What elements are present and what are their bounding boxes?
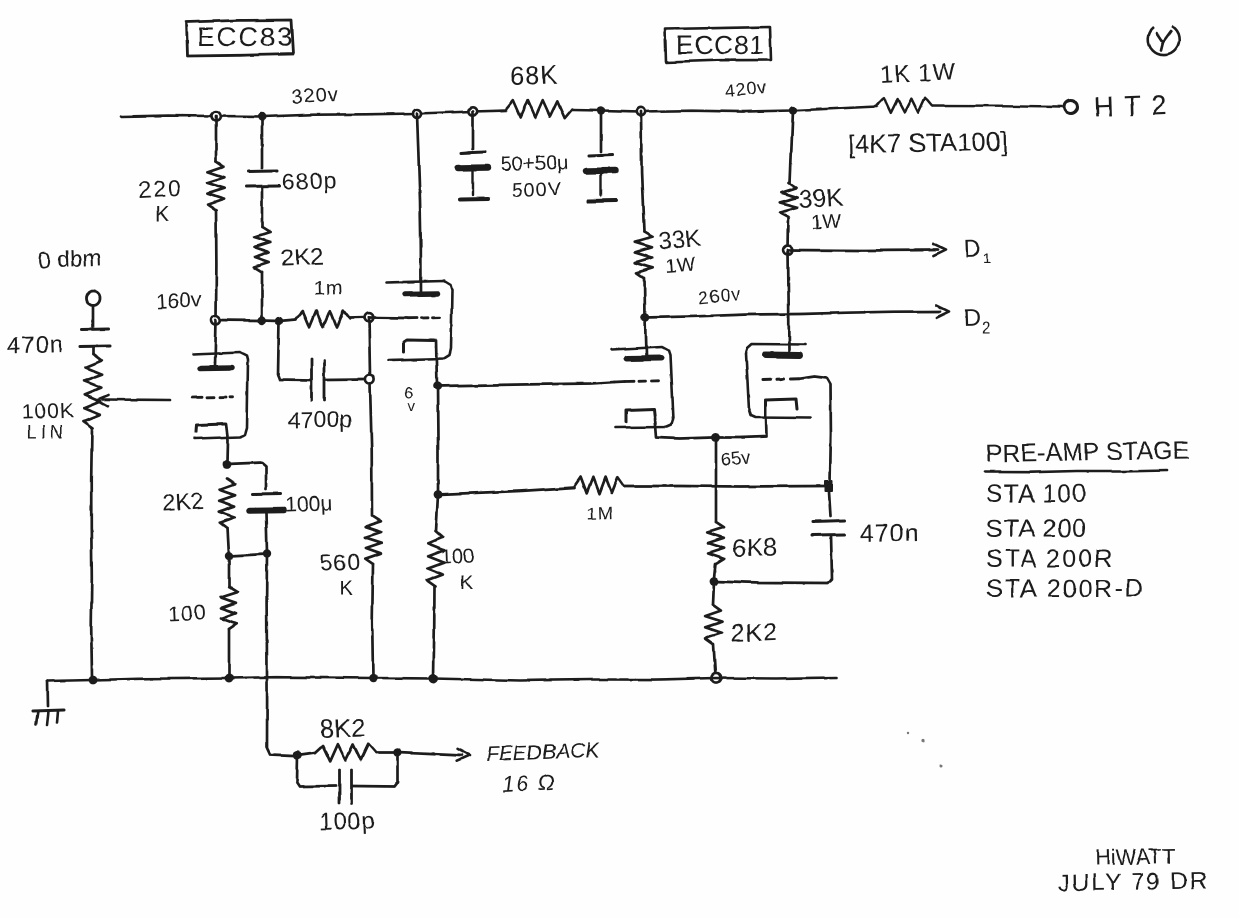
- svg-text:2K2: 2K2: [280, 244, 324, 272]
- svg-text:[4K7 STA100]: [4K7 STA100]: [848, 126, 1008, 159]
- junction ground at pot: [89, 676, 98, 685]
- resistor 560K: [365, 516, 382, 564]
- svg-text:ECC83: ECC83: [197, 22, 294, 52]
- wire 2K2 tail to ground: [714, 644, 716, 676]
- svg-text:100K: 100K: [21, 399, 75, 424]
- svg-text:1m: 1m: [313, 277, 344, 300]
- junction V2a cathode bottom: [434, 490, 443, 499]
- wire ground rail: [47, 677, 836, 681]
- wire V4 anode lead: [788, 250, 789, 352]
- label 65v: [720, 447, 751, 470]
- svg-text:160v: 160v: [155, 289, 202, 314]
- junction 4700p node: [365, 375, 374, 384]
- wire 2K2 to junction: [228, 528, 230, 556]
- wire D1 line: [788, 249, 938, 252]
- svg-text:320v: 320v: [291, 84, 340, 109]
- svg-text:2: 2: [982, 320, 991, 337]
- wire 470n down and to tail node: [714, 535, 832, 583]
- wire D2 line: [645, 312, 940, 318]
- svg-text:260v: 260v: [697, 284, 742, 308]
- label 6K8: [732, 533, 777, 563]
- svg-text:JULY 79 DR: JULY 79 DR: [1058, 867, 1210, 897]
- svg-text:65v: 65v: [720, 447, 751, 470]
- wire tail node to 2K2: [713, 581, 714, 605]
- terminal input: [86, 291, 100, 305]
- svg-text:68K: 68K: [509, 59, 559, 91]
- triode V1a grid dashes: [192, 395, 233, 399]
- svg-text:HT2: HT2: [1093, 89, 1177, 123]
- label 470n PI: [860, 519, 920, 548]
- resistor 68K on HT rail: [506, 101, 572, 119]
- wire 100 to ground: [228, 629, 231, 678]
- label box ECC81: [665, 27, 771, 62]
- svg-text:FEEDBACK: FEEDBACK: [485, 739, 600, 766]
- label STA 200R-D: [986, 575, 1144, 603]
- svg-text:33K: 33K: [658, 225, 702, 255]
- triode V3 grid dashes: [625, 379, 659, 383]
- svg-text:1W: 1W: [810, 210, 841, 234]
- label JULY 79 DR: [1058, 867, 1210, 897]
- wire 220K to 160v node: [215, 210, 218, 320]
- label 100 K right: [440, 545, 474, 594]
- capacitor 680p: [246, 171, 279, 187]
- wire 100K to ground: [434, 587, 435, 679]
- junction D2 node: [641, 313, 650, 322]
- junction on rail at 50u cap 2: [597, 106, 605, 114]
- wire HT supply rail left section (320v): [121, 112, 473, 117]
- label 50+50u: [500, 152, 568, 176]
- svg-text:K: K: [339, 578, 353, 600]
- speck 1: [907, 732, 909, 734]
- wire ground stub: [46, 681, 49, 706]
- resistor 2K2 anode chain: [254, 227, 271, 272]
- junction on rail at 33K: [637, 107, 645, 115]
- capacitor 50u #1: [458, 152, 488, 200]
- label HT2: [1093, 89, 1177, 123]
- svg-text:LIN: LIN: [27, 422, 67, 442]
- label 100u: [285, 492, 333, 517]
- wire HT rail to 1K resistor: [793, 107, 877, 111]
- label box ECC83: [186, 20, 294, 56]
- speck 2: [940, 765, 943, 768]
- wire 100u to junction: [266, 513, 267, 554]
- label PRE-AMP STAGE: [986, 436, 1190, 468]
- wire cathode node down: [715, 438, 718, 523]
- svg-text:0 dbm: 0 dbm: [37, 245, 102, 273]
- svg-text:HiWATT: HiWATT: [1095, 844, 1176, 870]
- wire HT rail to HT2 terminal: [932, 106, 1062, 107]
- wire V4 grid lead: [799, 377, 831, 483]
- label 320v: [291, 84, 340, 109]
- triode V4 cathode: [765, 399, 797, 417]
- triode V2a anode: [405, 291, 437, 297]
- arrow D2: [936, 305, 949, 317]
- capacitor 4700p: [312, 359, 325, 400]
- svg-text:4700p: 4700p: [288, 406, 352, 433]
- wire divider link: [229, 554, 267, 556]
- resistor 2K2 tail: [705, 605, 722, 644]
- resistor 2K2 cathode: [219, 479, 236, 528]
- wire 560K to ground: [371, 564, 374, 678]
- wire V3 cathode lead: [655, 419, 713, 439]
- svg-text:420v: 420v: [724, 77, 769, 101]
- triode V2a grid dashes: [408, 316, 440, 319]
- svg-text:39K: 39K: [798, 184, 844, 214]
- wire input to cap: [92, 305, 95, 327]
- wire 4700p left leg: [278, 321, 311, 381]
- label 100p: [318, 807, 376, 836]
- label D2: [963, 304, 991, 337]
- triode V2a envelope: [386, 281, 452, 360]
- resistor 100 cathode: [221, 587, 238, 629]
- wire cathode node to 100u: [227, 463, 267, 490]
- wire feedback node to 8K2: [298, 753, 316, 756]
- label 1m: [313, 277, 344, 300]
- wire 100p right leg: [352, 753, 398, 787]
- svg-text:1: 1: [983, 250, 991, 267]
- triode V3 cathode: [626, 409, 655, 422]
- wire 33K from rail: [641, 112, 644, 233]
- svg-text:1K 1W: 1K 1W: [879, 58, 957, 89]
- resistor 6K8: [707, 522, 724, 564]
- wire 680p to 2K2: [261, 187, 264, 228]
- wire grid node to tube2 grid: [369, 316, 407, 319]
- svg-text:2K2: 2K2: [162, 488, 204, 516]
- label 100 cathode: [168, 601, 207, 626]
- wire V2a anode from rail: [417, 114, 421, 292]
- junction cathode divider b: [263, 550, 271, 558]
- label 260v: [697, 284, 742, 308]
- svg-text:560: 560: [319, 549, 361, 576]
- page number circled 8: [1148, 26, 1179, 55]
- svg-text:1M: 1M: [586, 503, 614, 524]
- wire 39K from rail: [790, 111, 793, 184]
- junction 160v at 220K: [212, 316, 221, 325]
- wire V3 anode lead: [645, 318, 646, 356]
- speck 3: [921, 739, 924, 742]
- junction 6v node: [433, 382, 442, 391]
- label 68K: [509, 59, 559, 91]
- wire 39K to D1 node: [787, 217, 790, 250]
- wire junction to 100: [228, 556, 231, 587]
- wire HT rail middle section: [473, 111, 506, 112]
- triode V3 anode: [627, 355, 661, 362]
- junction on rail at 220K: [212, 112, 221, 121]
- label 160v: [155, 289, 202, 314]
- label FEEDBACK: [485, 739, 600, 766]
- wire V1a cathode lead: [226, 424, 228, 462]
- triode V2a cathode: [404, 340, 434, 352]
- junction 160v at 2K2: [258, 316, 266, 324]
- label STA 100: [986, 480, 1087, 508]
- label 2K2 tail: [730, 618, 778, 648]
- label 2K2 anode chain: [280, 244, 324, 272]
- svg-text:ECC81: ECC81: [676, 30, 765, 60]
- junction cathode divider a: [225, 552, 233, 560]
- wire 680p from rail: [261, 117, 264, 169]
- svg-text:6K8: 6K8: [732, 533, 777, 563]
- wire 1m to tube2 grid node: [350, 316, 369, 319]
- svg-text:470n: 470n: [860, 519, 920, 548]
- label 4K7 STA100: [848, 126, 1008, 159]
- svg-text:16 Ω: 16 Ω: [501, 769, 558, 797]
- label 100K: [21, 399, 75, 424]
- triode V4 anode: [766, 352, 800, 360]
- resistor 8K2: [315, 744, 376, 762]
- junction feedback left: [293, 751, 302, 760]
- wire feedback tap down: [267, 554, 293, 756]
- capacitor 100p: [340, 770, 352, 803]
- wire tube2 grid node down to 4700p node: [369, 318, 370, 376]
- svg-text:STA 200: STA 200: [986, 515, 1087, 543]
- svg-text:100: 100: [168, 601, 207, 626]
- label 680p: [281, 167, 337, 195]
- wiper arrow 100K pot: [97, 395, 170, 406]
- wire feedback arrow line: [398, 753, 463, 756]
- capacitor 470n PI: [812, 521, 845, 536]
- junction on rail at 39K: [789, 106, 797, 114]
- label 500V: [511, 178, 562, 202]
- svg-text:500V: 500V: [511, 178, 562, 202]
- wire 8K2 to right node: [376, 751, 393, 754]
- label 6v: [404, 383, 416, 415]
- svg-text:K: K: [155, 203, 169, 226]
- svg-text:680p: 680p: [281, 167, 337, 195]
- label 16 ohm: [501, 769, 558, 797]
- potentiometer 100K LIN: [84, 354, 102, 428]
- junction ground at 100K: [429, 674, 439, 684]
- terminal HT2: [1065, 101, 1078, 114]
- label 33K 1W: [658, 225, 702, 278]
- junction on rail at 50u cap 1: [469, 107, 477, 115]
- wire V4 cathode lead: [720, 417, 766, 438]
- triode V3 envelope: [612, 347, 673, 428]
- wire pot to ground: [90, 428, 94, 677]
- resistor 1M: [575, 477, 624, 494]
- junction feedback right: [393, 748, 402, 757]
- junction square node: [824, 480, 833, 492]
- svg-text:STA 200R: STA 200R: [986, 545, 1114, 573]
- resistor 220K: [207, 161, 225, 210]
- wire V1a anode lead: [215, 320, 216, 366]
- junction on rail at 680p: [258, 112, 266, 120]
- wire HT rail after 68K: [572, 110, 793, 112]
- wire V2a cathode lead: [436, 341, 437, 387]
- label 1M: [586, 503, 614, 524]
- wire 6v node down: [436, 386, 439, 494]
- ground symbol: [33, 710, 64, 725]
- triode V1a anode: [200, 365, 232, 371]
- triode V1a cathode: [196, 424, 225, 432]
- wire 160v node row: [216, 320, 296, 322]
- triode V4 envelope: [746, 344, 810, 418]
- label 220 K: [138, 175, 184, 226]
- capacitor 50u #2: [586, 155, 616, 201]
- junction tube2 grid node: [365, 313, 374, 322]
- wire 4700p node to 560K: [370, 384, 372, 516]
- wire V3 grid lead: [615, 380, 625, 383]
- svg-text:8K2: 8K2: [319, 712, 366, 744]
- svg-text:D: D: [963, 304, 981, 332]
- wire node to 100K: [436, 495, 438, 532]
- wire 6K8 to tail node: [714, 564, 716, 578]
- junction D1 node: [784, 246, 793, 255]
- svg-text:PRE-AMP STAGE: PRE-AMP STAGE: [986, 436, 1190, 468]
- junction common cathode 65v: [712, 433, 721, 442]
- junction ground at 100: [225, 674, 234, 683]
- label 2K2 cathode: [162, 488, 204, 516]
- underline PRE-AMP STAGE: [985, 470, 1167, 472]
- resistor 33K: [635, 232, 654, 278]
- wire 33K to D2 node: [643, 278, 646, 317]
- junction V1a cathode node: [222, 460, 231, 469]
- label 0 dbm: [37, 245, 102, 273]
- svg-text:v: v: [408, 398, 416, 415]
- wire square node to 470n: [829, 492, 831, 516]
- wire 100p left leg: [297, 755, 336, 787]
- svg-text:D: D: [963, 235, 981, 263]
- junction tail node: [710, 577, 719, 586]
- label 420v: [724, 77, 769, 101]
- capacitor 470n input: [80, 329, 110, 347]
- label STA 200: [986, 515, 1087, 543]
- wire 2K2 to 160v node: [261, 272, 264, 320]
- label D1: [963, 235, 991, 267]
- label 39K 1W: [798, 184, 844, 234]
- wire 1M to square node: [624, 485, 824, 488]
- junction 160v at 4700p tap: [275, 317, 283, 325]
- wire 50u cap2 from rail: [600, 111, 603, 153]
- arrow D1: [933, 244, 946, 256]
- svg-text:100μ: 100μ: [285, 492, 333, 517]
- label HiWATT: [1095, 844, 1176, 870]
- svg-text:2K2: 2K2: [730, 618, 778, 648]
- arrow feedback: [457, 749, 470, 761]
- wire cap to pot: [92, 347, 95, 355]
- label 560 K: [319, 549, 361, 600]
- svg-text:STA 100: STA 100: [986, 480, 1087, 508]
- resistor 100K: [427, 531, 444, 587]
- svg-text:100: 100: [440, 545, 474, 568]
- svg-text:K: K: [460, 573, 473, 594]
- triode V1a envelope: [193, 353, 248, 439]
- resistor 1K 1W on HT rail: [877, 97, 932, 113]
- wire 50u cap1 from rail: [472, 112, 475, 150]
- svg-text:STA 200R-D: STA 200R-D: [986, 575, 1144, 603]
- svg-text:50+50μ: 50+50μ: [500, 152, 568, 176]
- label 470n input: [6, 331, 64, 360]
- junction ground at tail: [711, 673, 720, 682]
- wire 6v node to tube3 grid: [438, 382, 616, 386]
- label 4700p: [288, 406, 352, 433]
- label STA 200R: [986, 545, 1114, 573]
- capacitor 100u: [250, 494, 284, 511]
- resistor 39K: [780, 183, 798, 217]
- label 8K2: [319, 712, 366, 744]
- triode V4 grid dashes: [763, 377, 799, 381]
- svg-text:100p: 100p: [318, 807, 376, 836]
- wire node to 1M: [438, 488, 575, 495]
- label LIN: [27, 422, 67, 442]
- resistor 1m grid: [296, 311, 350, 329]
- junction ground at 560K: [369, 674, 378, 683]
- svg-text:1W: 1W: [665, 254, 697, 278]
- junction on rail at tube2 anode: [413, 110, 421, 118]
- svg-text:470n: 470n: [6, 331, 64, 360]
- label 1K 1W: [879, 58, 957, 89]
- wire 4700p right leg: [325, 378, 365, 381]
- svg-text:220: 220: [138, 175, 184, 203]
- wire 220K from rail: [215, 116, 218, 161]
